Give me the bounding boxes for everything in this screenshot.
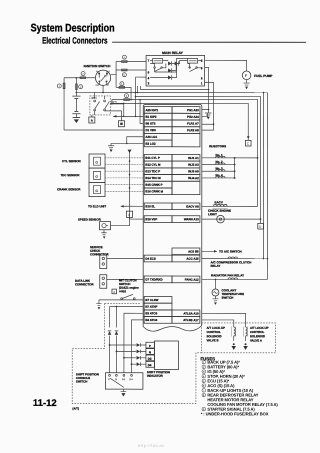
svg-text:B7 CLSW: B7 CLSW [145, 298, 158, 302]
pin B16 CRNK M [144, 188, 172, 195]
console wiper [110, 378, 124, 387]
wire bundle line e to injector rail [110, 103, 248, 140]
svg-text:only): only) [119, 289, 126, 293]
svg-text:ATLSA A19: ATLSA A19 [183, 311, 199, 315]
svg-text:ACC A15: ACC A15 [186, 257, 199, 261]
node battery top [76, 77, 78, 79]
diode D4 [175, 62, 178, 66]
svg-text:MAIN RELAY: MAIN RELAY [162, 51, 184, 55]
speed sensor [99, 222, 110, 230]
wire bundle line b to fan rail [136, 86, 138, 92]
battery BAT [75, 92, 77, 96]
svg-text:PG2 A24: PG2 A24 [187, 115, 199, 119]
svg-text:B10 EL: B10 EL [145, 204, 155, 208]
svg-text:B13 TDC P: B13 TDC P [145, 169, 160, 173]
pin B7 CLSW [144, 297, 172, 304]
pin PG2 A24 [172, 113, 200, 120]
wire LG1 to ground [127, 137, 144, 144]
node ACC rail b [267, 258, 269, 260]
svg-text:N: N [149, 350, 151, 354]
ground fuel pump [243, 80, 249, 85]
ground coolant switch [213, 296, 219, 301]
data link connector [100, 275, 107, 289]
box P [146, 342, 155, 348]
pin ACC A15 [172, 255, 200, 262]
svg-text:3: 3 [128, 213, 130, 217]
ECU outline [143, 104, 202, 326]
fuse 6 [119, 86, 125, 88]
header rule [112, 41, 306, 43]
svg-text:FUEL PUMP: FUEL PUMP [254, 74, 273, 78]
AT lockup dashed box [202, 323, 276, 353]
relay contact S2 [189, 67, 191, 69]
wire bundle line a [141, 86, 209, 90]
wire ACS arrow [202, 250, 214, 252]
pin B2 LG2 [144, 140, 172, 147]
fuse item BACK UP (7.5 A)* [202, 360, 206, 364]
ground LG [108, 146, 114, 148]
coolant temperature switch [214, 279, 216, 289]
svg-text:TO ELD UNIT: TO ELD UNIT [88, 204, 106, 208]
fuse item ACG (S) (15 A) [202, 384, 206, 388]
pin B13 TDC P [144, 168, 172, 175]
svg-text:4: 4 [148, 76, 150, 80]
wire vsp to ecu [130, 217, 144, 219]
pin B19 VSP [144, 216, 172, 223]
svg-text:A25 IGP1: A25 IGP1 [145, 108, 158, 112]
wire relay pin2 to fuel pump [205, 60, 247, 71]
diode D3 [168, 76, 171, 80]
pin A25 IGP1 [144, 107, 172, 114]
dashed AT region [72, 348, 201, 403]
svg-text:B8 STS: B8 STS [145, 121, 155, 125]
pin FANC A12 [172, 276, 200, 283]
svg-text:System Description: System Description [31, 22, 115, 34]
diode ind N [137, 350, 141, 354]
wire fuse4 row [116, 60, 146, 62]
diode ind D4 [137, 362, 141, 366]
svg-text:B11 CYL P: B11 CYL P [145, 156, 159, 160]
svg-text:IGNITION SWITCH: IGNITION SWITCH [84, 64, 112, 68]
check engine lamp [202, 218, 261, 220]
relay coil L1 [153, 58, 163, 63]
svg-text:G: G [95, 161, 98, 165]
box D4 [146, 361, 155, 367]
svg-text:5: 5 [201, 76, 203, 80]
ECU blank cell CRNK [172, 181, 200, 194]
fuse 9 [124, 99, 130, 101]
fuse item STOP, HORN (20 A)* [202, 374, 206, 378]
node at 123.7 [123, 116, 125, 118]
svg-text:LIGHT: LIGHT [208, 212, 217, 216]
relay internal wires [150, 58, 202, 78]
wire indicator row N [116, 350, 136, 352]
ground clutch switch [96, 300, 101, 306]
pin D4 ECS [144, 255, 172, 262]
fuse 4 [122, 61, 128, 63]
EACV coil [202, 205, 258, 207]
pin B3 ATO3 [144, 310, 172, 317]
svg-text:B3 ATO3: B3 ATO3 [145, 311, 157, 315]
svg-text:B1 IGP2: B1 IGP2 [145, 115, 156, 119]
pin ACS B5 [172, 248, 200, 255]
svg-text:INJ3 A5: INJ3 A5 [188, 169, 199, 173]
diode ind P [137, 343, 141, 347]
pin A26 LG1 [144, 133, 172, 140]
box A to starter [91, 115, 93, 117]
svg-text:ACS B5: ACS B5 [188, 249, 199, 253]
wire D3 vertical [124, 313, 143, 373]
wire D4 vertical [132, 320, 144, 373]
fuse 2 [80, 77, 86, 79]
node battery junction [76, 92, 78, 94]
fuse item BACK-UP LIGHTS (10 A) [202, 388, 206, 392]
wire battery to IGP2 drop [134, 77, 136, 116]
svg-text:B7 ATNP: B7 ATNP [145, 305, 157, 309]
pin B11 CYL P [144, 154, 172, 161]
wire indicator row D3 [124, 357, 136, 359]
svg-text:P: P [149, 344, 151, 348]
node FLR1 [213, 123, 215, 125]
ground console [121, 389, 127, 391]
fuse 3 [75, 78, 77, 93]
pin D1 VBU [144, 127, 172, 134]
ground PG [205, 113, 212, 115]
box B to starter motor [120, 111, 122, 121]
node PG1 [208, 109, 210, 111]
ground valve B [233, 343, 235, 345]
svg-text:INJECTORS: INJECTORS [209, 144, 226, 148]
pin FLR2 A8 [172, 127, 200, 134]
relay contact S1 [154, 67, 156, 69]
svg-text:B15 CRNK P: B15 CRNK P [145, 183, 162, 187]
pin WARN A13 [172, 216, 200, 223]
svg-text:CRANK SENSOR: CRANK SENSOR [57, 187, 81, 191]
clutch switch ref box [112, 289, 117, 294]
wire ACC with relay coil [202, 258, 268, 260]
svg-text:D4: D4 [130, 378, 134, 381]
wire bundle line d to lamp rail [112, 99, 258, 206]
svg-text:SPEED SENSOR: SPEED SENSOR [78, 218, 102, 222]
ignition switch body [95, 70, 110, 85]
svg-text:C: C [247, 142, 250, 146]
pin INJ1 A1 [172, 154, 200, 161]
tdc sensor [89, 168, 105, 182]
svg-text:Electrical Connectors: Electrical Connectors [42, 35, 108, 45]
svg-text:WARN A13: WARN A13 [184, 217, 199, 221]
shift position indicator box [154, 341, 178, 370]
svg-text:CYL SENSOR: CYL SENSOR [62, 159, 82, 163]
fuse item BATTERY (80 A)* [202, 365, 206, 369]
wire cyl pair [105, 157, 143, 159]
svg-text:B16 CRNK M: B16 CRNK M [145, 189, 163, 193]
wire ATLSA to valve A [202, 313, 246, 327]
wire ST signal branch [140, 100, 143, 124]
cyl sensor [89, 154, 105, 168]
svg-text:11-12: 11-12 [33, 398, 57, 409]
fuse item STARTER SIGNAL (7.5 A) [202, 407, 206, 411]
svg-text:FANC A12: FANC A12 [185, 278, 199, 282]
ground valve A [245, 343, 247, 345]
svg-text:D: D [259, 225, 262, 229]
svg-text:PG1 A23: PG1 A23 [187, 108, 199, 112]
wire crank pair [105, 184, 143, 186]
pin B15 CRNK P [144, 181, 172, 188]
diode D1 [168, 62, 171, 66]
ECU bottom break wave [143, 325, 202, 331]
fuse item REAR DEFROSTER RELAY [202, 393, 206, 397]
pin B7 ATNP [144, 303, 172, 310]
wire scs to ecu [107, 257, 143, 259]
svg-text:ST: ST [106, 85, 109, 87]
solenoid valve A coil [246, 327, 248, 341]
svg-text:G: G [95, 175, 98, 179]
fuel pump motor [242, 71, 251, 80]
wire relay pin8 drop [205, 68, 209, 113]
svg-text:IG1: IG1 [107, 71, 111, 73]
svg-text:RELAY: RELAY [210, 264, 220, 268]
diode ind D3 [137, 356, 141, 360]
wire battery feed top [64, 77, 95, 79]
ground speed sensor [101, 230, 106, 235]
wire tdc pair [105, 170, 143, 172]
svg-text:(A/T): (A/T) [72, 406, 79, 410]
pin B14 TDC M [144, 175, 172, 182]
svg-text:D3: D3 [122, 378, 126, 381]
svg-text:7: 7 [148, 59, 150, 63]
wire fuse5 row [116, 69, 146, 71]
pin PG1 A23 [172, 107, 200, 114]
svg-text:CONNECTOR: CONNECTOR [75, 282, 94, 286]
wire indicator row D4 [132, 363, 137, 365]
svg-text:B2 LG2: B2 LG2 [145, 142, 156, 146]
wire left drop to VBU [63, 78, 65, 130]
node N row [116, 350, 118, 352]
node D4 row [131, 363, 133, 365]
svg-text:FLR1 A7: FLR1 A7 [187, 122, 199, 126]
svg-text:EACV A8: EACV A8 [186, 204, 199, 208]
diode P [108, 331, 112, 335]
svg-text:INJ4 A2: INJ4 A2 [188, 176, 199, 180]
wire FANC with relay coil [202, 278, 268, 280]
wire fuse6 row [116, 87, 131, 99]
svg-text:TDC SENSOR: TDC SENSOR [61, 173, 81, 177]
node ACC rail c [263, 258, 265, 260]
node P row [109, 344, 111, 346]
pin D7 TXD/RXD [144, 276, 172, 283]
box C connector [247, 136, 250, 139]
crank sensor [89, 182, 105, 196]
svg-text:(M/T): (M/T) [91, 98, 97, 100]
pin INJ4 A2 [172, 175, 200, 182]
pin B1 IGP2 [144, 113, 172, 120]
wire ELD [124, 205, 144, 207]
pin B4 ATO4 [144, 317, 172, 324]
wire FLR1 [202, 123, 214, 125]
diode D2 [168, 69, 171, 73]
svg-text:B4 ATO4: B4 ATO4 [145, 318, 157, 322]
clutch switch [121, 298, 123, 300]
diode N [115, 331, 119, 335]
relay coil L2 [188, 59, 198, 64]
node lamp rail [260, 218, 262, 220]
wire clsw row [99, 299, 143, 301]
svg-text:B12 CYL M: B12 CYL M [145, 163, 161, 167]
fuse item ECU (15 A)* [202, 379, 206, 383]
svg-text:D4: D4 [148, 363, 152, 367]
svg-text:4: 4 [113, 290, 115, 294]
svg-text:ATLSB A17: ATLSB A17 [183, 318, 199, 322]
svg-text:nttp://tos.ec: nttp://tos.ec [138, 443, 165, 448]
main relay box [146, 55, 205, 86]
svg-text:B19 VSP: B19 VSP [145, 217, 157, 221]
svg-text:F: F [245, 74, 247, 78]
pin B8 STS [144, 120, 172, 127]
svg-text:VALVE B: VALVE B [206, 338, 218, 342]
svg-text:8: 8 [201, 66, 203, 70]
wire N position vertical [115, 306, 117, 372]
node coolant switch tap [215, 279, 217, 281]
pin FLR1 A7 [172, 120, 200, 127]
console terminals [109, 374, 111, 376]
wire VBU feed [64, 129, 143, 131]
service check connector [100, 255, 107, 269]
svg-text:INDICATOR: INDICATOR [147, 374, 164, 378]
svg-text:VALVE A: VALVE A [250, 338, 263, 342]
svg-text:FLR2 A8: FLR2 A8 [187, 128, 199, 132]
starter relay contact A/T [104, 100, 106, 102]
wire battery junction row [76, 91, 267, 93]
wire ATLSB to valve B [202, 320, 234, 327]
svg-text:N: N [115, 378, 117, 381]
wire vss link [111, 222, 130, 226]
fuse 1 [63, 83, 65, 89]
pin ATLSA A19 [172, 310, 200, 317]
svg-text:3: 3 [148, 81, 150, 85]
wire IGP2 row [113, 115, 143, 117]
wire shield drain [129, 152, 131, 222]
box D3 [146, 355, 155, 361]
node LG join [126, 143, 128, 145]
svg-text:* : UNDER-HOOD FUSE/RELAY BOX: * : UNDER-HOOD FUSE/RELAY BOX [201, 411, 269, 416]
wire bundle line c to acc rail [135, 96, 260, 223]
svg-text:D1 VBU: D1 VBU [145, 128, 156, 132]
svg-text:B14 TDC M: B14 TDC M [145, 176, 161, 180]
svg-text:EACV: EACV [215, 200, 223, 204]
svg-text:SWITCH: SWITCH [221, 296, 233, 300]
node D3 row [123, 357, 125, 359]
wire indicator row P [110, 344, 137, 346]
solenoid valve B coil [234, 327, 236, 341]
box D connector [258, 223, 264, 229]
pin B10 EL [144, 203, 172, 210]
svg-text:D7 TXD/RXD: D7 TXD/RXD [145, 278, 162, 282]
svg-text:G: G [95, 189, 98, 193]
wire ST drop [102, 85, 104, 92]
svg-text:6: 6 [148, 70, 150, 74]
fuse 5 [122, 69, 128, 71]
svg-text:A26 LG1: A26 LG1 [145, 135, 157, 139]
node bundle e branch [123, 103, 125, 105]
svg-text:RADIATOR FAN RELAY: RADIATOR FAN RELAY [211, 273, 244, 277]
dashed A/T alternate [105, 302, 141, 304]
wire relay pin1 to FLR [202, 83, 214, 131]
ECU blank cell LG [172, 133, 200, 146]
node at 135.4 [135, 116, 137, 118]
svg-text:INJ1 A1: INJ1 A1 [188, 156, 199, 160]
pin INJ3 A5 [172, 168, 200, 175]
node fuse6 to bundle [130, 99, 132, 101]
wire dlc to ecu [107, 278, 143, 280]
wire PG1 to ground [202, 110, 209, 117]
pin INJ2 A3 [172, 161, 200, 168]
ground battery [73, 117, 80, 119]
fuse item IG (50 A)* [202, 370, 206, 374]
vss connector box [126, 211, 132, 217]
svg-text:TO A/C SWITCH: TO A/C SWITCH [219, 250, 242, 254]
pin EACV A8 [172, 203, 200, 210]
svg-text:D3: D3 [148, 357, 152, 361]
box N [146, 349, 155, 355]
pin ATLSB A17 [172, 317, 200, 324]
pin B12 CYL M [144, 161, 172, 168]
svg-text:1: 1 [201, 81, 203, 85]
wire LG2 to ground [111, 143, 143, 145]
svg-text:D4 ECS: D4 ECS [145, 257, 156, 261]
shift console switch box [105, 373, 143, 389]
wire P position vertical [109, 306, 111, 372]
wire ATNP row [110, 305, 144, 307]
svg-text:IG2: IG2 [96, 85, 100, 87]
wire injector common [234, 158, 236, 178]
wire IG to fuses vertical [115, 61, 117, 87]
svg-text:SWITCH: SWITCH [76, 380, 87, 384]
svg-text:INJ2 A3: INJ2 A3 [188, 163, 199, 167]
